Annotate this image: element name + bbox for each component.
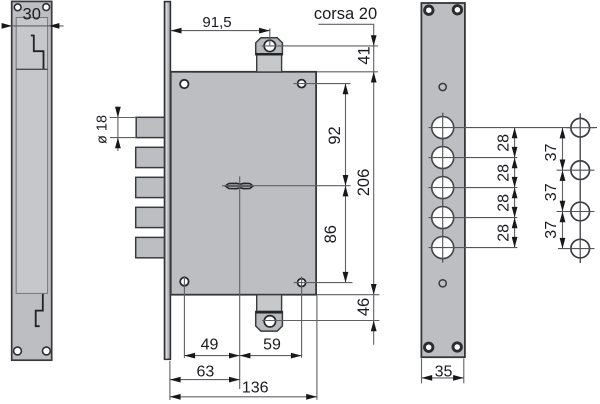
- body bottom extension line: [317, 294, 380, 296]
- svg-text:30: 30: [23, 6, 41, 24]
- dimension 59 left arrow: [240, 353, 251, 359]
- dimension 30 line: [2, 25, 64, 27]
- dimension diameter 18 vertical line: [117, 107, 119, 152]
- dimension 86 top arrow: [343, 186, 349, 197]
- left plate inner horizontal line upper: [16, 68, 47, 70]
- dimension 91,5 line: [171, 30, 270, 32]
- svg-text:28: 28: [496, 164, 513, 182]
- dimension 206 top arrow: [371, 72, 377, 83]
- faceplate small hole lower: [439, 280, 446, 287]
- svg-text:41: 41: [356, 46, 374, 64]
- left plate top screw hole left: [14, 4, 21, 11]
- circle 3 tick: [557, 211, 595, 213]
- faceplate big hole 4: [432, 207, 454, 229]
- distance circle 2: [571, 161, 590, 180]
- dimension 92/86 vertical line: [345, 84, 347, 283]
- svg-text:206: 206: [355, 169, 373, 197]
- dimension 37 arrow top: [560, 128, 566, 139]
- dimension 136 right arrow: [306, 394, 317, 400]
- faceplate big hole 2: [432, 147, 454, 169]
- key cylinder slot center bar: [226, 185, 253, 187]
- dimension 92 top arrow: [343, 84, 349, 95]
- top latch block: [257, 55, 282, 72]
- svg-text:ø 18: ø 18: [94, 115, 110, 144]
- circle 1 tick (covered by long line): [566, 127, 595, 129]
- dimension 49 left arrow: [184, 353, 195, 359]
- left plate bottom screw hole left: [14, 347, 22, 355]
- body hole top-left: [180, 80, 188, 88]
- top latch head: [256, 38, 283, 55]
- dimension 92 bottom arrow: [343, 175, 349, 186]
- svg-text:corsa 20: corsa 20: [314, 5, 377, 23]
- distance circles vertical line overlay: [579, 113, 581, 263]
- left plate inner panel: [16, 18, 47, 294]
- dimension 30 left arrow: [2, 23, 12, 29]
- left plate (side view) outer body: [12, 1, 52, 360]
- left plate bottom screw hole right: [43, 347, 51, 355]
- latch circle line: [262, 45, 378, 47]
- left plate top latch zigzag: [31, 36, 44, 69]
- dimension 49 right arrow: [229, 353, 240, 359]
- dimension 86 bottom arrow: [343, 272, 349, 283]
- faceplate bottom screw hole right: [453, 343, 461, 351]
- dimension 59 right arrow: [291, 353, 302, 359]
- corsa 20 down arrow: [371, 35, 377, 46]
- extension line body right edge: [316, 296, 318, 400]
- dimension diameter 18 lower line: [110, 137, 136, 139]
- distance circles vertical line: [579, 113, 581, 263]
- dimension 41 vertical line: [373, 46, 375, 345]
- distance circle 4: [571, 239, 590, 258]
- dimension 49/59 line: [184, 355, 301, 357]
- left plate top screw hole right: [43, 4, 50, 11]
- bottom bolt dark band: [256, 311, 283, 313]
- body hole top-right: [298, 80, 306, 88]
- dimension 91,5 extension to latch circle: [269, 28, 271, 46]
- dimension 37 arrows at circle3: [560, 201, 566, 222]
- extension line from bottom-right hole: [301, 277, 303, 358]
- dimension 206 bottom arrow: [371, 284, 377, 295]
- dimension 91,5 left arrow: [171, 28, 182, 34]
- bolt pin rectangle 5: [136, 237, 165, 257]
- bolt pin rectangle 4: [136, 207, 165, 227]
- dimension 37 arrow bottom: [560, 238, 566, 249]
- bottom bolt head: [256, 312, 283, 332]
- svg-text:28: 28: [496, 194, 513, 212]
- bottom-right hole line: [294, 282, 353, 284]
- svg-text:63: 63: [197, 363, 215, 380]
- faceplate edge highlight: [166, 3, 168, 359]
- circle 4 tick: [558, 248, 595, 250]
- dimension 28 arrow top: [512, 128, 518, 139]
- faceplate center line vertical: [442, 113, 444, 263]
- dimension 46 bottom arrow: [371, 321, 377, 332]
- dimension 91,5 right arrow: [259, 28, 270, 34]
- dimension 35 right arrow: [453, 375, 464, 381]
- body top extension line: [317, 71, 378, 73]
- svg-text:92: 92: [326, 126, 344, 144]
- faceplate front view: [421, 3, 465, 357]
- distance circle 3: [571, 202, 590, 221]
- svg-text:136: 136: [242, 380, 269, 397]
- svg-text:46: 46: [355, 298, 373, 316]
- top latch circle: [264, 40, 275, 51]
- faceplate top screw hole left: [425, 6, 433, 14]
- dimension 28 arrows at hole3: [512, 177, 518, 198]
- faceplate big hole 5: [432, 237, 454, 259]
- body hole bottom-right: [298, 279, 306, 287]
- dimension 28 arrow bottom: [512, 237, 518, 248]
- dimension diameter 18 top arrow: [115, 107, 121, 118]
- distance circle 1: [571, 118, 590, 137]
- dimension 63 left arrow: [170, 377, 181, 383]
- hole 1 center line long: [429, 127, 598, 129]
- dimension 30 right arrow: [49, 23, 59, 29]
- bottom bolt circle line: [262, 320, 379, 322]
- faceplate vertical line through holes redraw: [442, 113, 444, 263]
- extension line left below faceplate: [169, 361, 171, 400]
- dimension 37 arrows at circle2: [560, 160, 566, 181]
- svg-text:59: 59: [263, 337, 281, 354]
- circle 2 tick: [557, 169, 595, 171]
- faceplate big hole 1: [432, 117, 454, 139]
- svg-text:49: 49: [201, 337, 219, 354]
- svg-text:91,5: 91,5: [202, 14, 231, 31]
- svg-text:37: 37: [543, 183, 560, 201]
- dimension 28 vertical line: [514, 128, 516, 248]
- extension line from bottom-left hole: [183, 276, 185, 358]
- dimension 28 arrows at hole2: [512, 147, 518, 168]
- key cylinder slot: [225, 183, 253, 188]
- dimension 35 line: [422, 377, 464, 379]
- hole 2 center line: [429, 157, 518, 159]
- hole 3 center line: [429, 187, 518, 189]
- svg-text:37: 37: [543, 144, 560, 162]
- keyhole center line horizontal: [222, 185, 351, 187]
- hole 5 center line: [429, 247, 518, 249]
- hole 4 center line: [429, 217, 518, 219]
- top latch dark band: [256, 53, 283, 55]
- svg-text:28: 28: [496, 134, 513, 152]
- faceplate top screw hole right: [453, 6, 461, 14]
- bolt pin rectangle 2: [136, 147, 165, 167]
- bolt pin rectangle 3: [136, 177, 165, 197]
- dimension diameter 18 bottom arrow: [115, 138, 121, 149]
- faceplate edge (middle view thin plate): [165, 2, 171, 360]
- dimension diameter 18 upper line: [110, 117, 137, 119]
- dimension 37 vertical line: [562, 128, 564, 249]
- dimension 28 arrows at hole4: [512, 207, 518, 228]
- dimension 136 line: [170, 396, 317, 398]
- dimension 35 extension lines: [421, 359, 423, 384]
- svg-text:86: 86: [322, 225, 340, 243]
- lock body: [171, 72, 316, 295]
- keyhole center line vertical: [239, 176, 241, 389]
- dimension 35 left arrow: [422, 375, 433, 381]
- svg-text:28: 28: [496, 224, 513, 242]
- left plate bottom latch zigzag: [36, 294, 43, 326]
- bottom bolt block: [257, 295, 282, 312]
- dimension 136 left arrow: [170, 394, 181, 400]
- dimension 63 line: [170, 379, 240, 381]
- dimension 63 right arrow: [229, 377, 240, 383]
- body hole bottom-left: [180, 277, 188, 285]
- faceplate small hole upper: [439, 83, 446, 90]
- svg-text:37: 37: [543, 221, 560, 239]
- faceplate big hole 3: [432, 177, 454, 199]
- bottom bolt circle: [264, 316, 275, 327]
- svg-text:35: 35: [435, 364, 453, 381]
- top-right hole line: [294, 83, 351, 85]
- bolt pin rectangle 1: [136, 117, 164, 137]
- faceplate bottom screw hole left: [425, 343, 433, 351]
- corsa 20 reference line: [318, 24, 373, 46]
